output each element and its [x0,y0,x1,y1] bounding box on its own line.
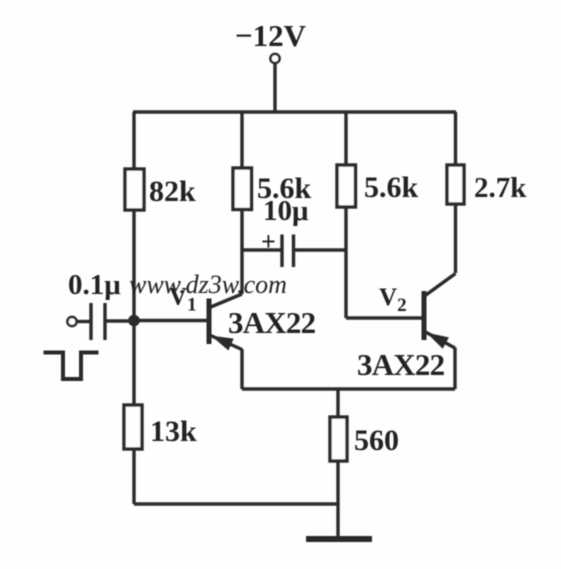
wire chain4 mid (2.7k to V2 collector) [454,204,457,273]
wire V1 base lead [134,319,209,322]
wire supply drop [273,63,276,112]
terminal -12V supply [270,54,279,63]
svg-text:2.7k: 2.7k [474,172,527,204]
wire chain4 top (bus to 2.7k) [454,112,457,165]
transistor V1 collector stroke [210,294,243,308]
svg-text:0.1μ: 0.1μ [68,269,121,301]
svg-text:5.6k: 5.6k [364,171,419,204]
wire chain2 top (bus to 5.6k) [240,112,243,168]
wire 560 bottom to ground [336,461,339,539]
ground [306,536,372,542]
svg-text:82k: 82k [149,175,196,208]
svg-text:V2: V2 [379,284,407,316]
wire bottom return [134,502,338,505]
resistor R 560 [330,417,347,461]
transistor V1 base bar [207,299,212,345]
svg-text:−12V: −12V [235,18,307,53]
pulse waveform symbol [44,353,99,380]
wire input lead [77,320,91,323]
wire V2 emitter down [453,348,456,390]
resistor R 82k [125,169,144,210]
transistor V1 emitter arrowhead [211,336,234,351]
svg-text:560: 560 [354,424,399,457]
wire V1 emitter down [240,349,243,389]
svg-text:10μ: 10μ [263,195,309,227]
wire chain1 mid (82k to 13k) [132,210,135,405]
wire chain3 top (bus to 5.6k right) [344,112,347,165]
wire emitter bus [242,387,455,390]
terminal input [67,317,76,326]
svg-text:13k: 13k [150,415,197,448]
node input junction [128,315,140,327]
transistor V2 emitter arrowhead [427,333,449,349]
wire chain1 top (bus to 82k) [132,112,135,169]
svg-text:+: + [261,227,276,256]
transistor V1 emitter stroke [210,335,243,350]
svg-text:www.dz3w.com: www.dz3w.com [129,270,287,299]
resistor R 5.6k left [233,168,252,210]
wire 560 top lead [336,389,339,417]
wire 0.1u to node [105,319,134,322]
wire chain2 mid (5.6k to V1 collector) [240,210,243,295]
wire cap left lead [242,248,282,251]
resistor R 5.6k right [337,165,356,207]
resistor R 13k [124,405,142,449]
transistor V2 base bar [422,291,427,340]
wire chain3 mid (5.6k right down) [344,207,347,318]
wire chain1 bottom (13k down) [132,449,135,504]
capacitor C 10u plates [282,235,294,268]
transistor V2 emitter stroke [425,332,456,349]
transistor V2 collector stroke [425,274,456,297]
capacitor C 0.1u plates [91,303,105,340]
svg-text:3AX22: 3AX22 [228,305,316,340]
wire top supply bus [133,110,456,113]
resistor R 2.7k [447,165,464,204]
svg-text:3AX22: 3AX22 [357,347,445,382]
wire cap right lead [294,248,347,251]
wire V2 base lead [346,316,422,319]
